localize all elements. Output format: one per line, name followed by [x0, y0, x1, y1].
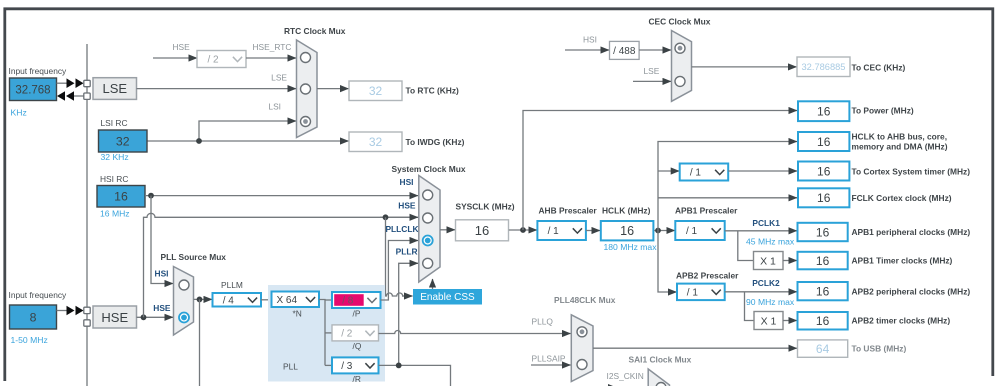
radio PLLQ selected — [577, 327, 587, 337]
multiplexer CEC Clock Mux — [672, 31, 692, 102]
multiplier APB1 X1 — [754, 252, 784, 270]
svg-text:HCLK (MHz): HCLK (MHz) — [602, 205, 651, 215]
value box APB1 timer 16 — [798, 252, 848, 269]
wire PLLR riser — [399, 263, 418, 365]
wire HSE to PLL mux — [137, 316, 174, 318]
junction PLL source branch — [197, 297, 203, 303]
svg-text:64: 64 — [816, 342, 830, 356]
svg-text:PLLSAIP: PLLSAIP — [532, 354, 566, 364]
svg-text:32: 32 — [369, 135, 383, 149]
wire APB1 to timer mult — [738, 231, 753, 261]
wire mux to SYSCLK — [440, 229, 455, 231]
divider HSI /488 — [610, 41, 640, 59]
region PLL background — [268, 285, 385, 382]
svg-text:/ 1: / 1 — [690, 168, 702, 179]
svg-text:16: 16 — [816, 225, 830, 239]
svg-text:PCLK2: PCLK2 — [752, 278, 780, 288]
divider /Q 2 disabled — [332, 325, 379, 341]
pin RCC_OSC32_OUT — [84, 93, 90, 99]
value box To USB 64 — [798, 340, 848, 357]
radio sys HSI unselected — [423, 190, 433, 200]
multiplexer System Clock Mux — [419, 176, 440, 283]
svg-text:HSE: HSE — [101, 310, 128, 325]
radio LSI selected — [301, 117, 311, 127]
multiplexer PLL Source Mux — [174, 267, 194, 336]
wire HSI to system mux — [145, 195, 418, 197]
divider Cortex timer /1 — [680, 164, 729, 181]
svg-text:FCLK Cortex clock (MHz): FCLK Cortex clock (MHz) — [852, 193, 952, 203]
svg-text:/P: /P — [353, 309, 361, 319]
wire SYSCLK to AHB — [509, 229, 537, 231]
multiplexer PLL48CLK Mux — [571, 315, 593, 382]
wire HCLK down to APB2 — [658, 231, 677, 293]
wire CSS arrow — [402, 295, 413, 297]
pin RCC_OSC_IN — [84, 307, 90, 313]
divider HSE_RTC /2 — [197, 51, 246, 68]
svg-text:X 64: X 64 — [276, 295, 297, 306]
svg-text:HSE_RTC: HSE_RTC — [253, 42, 292, 52]
wire HCLK to APB1 — [654, 230, 675, 232]
wire PCLK2 — [725, 291, 797, 293]
svg-text:APB1 Timer clocks (MHz): APB1 Timer clocks (MHz) — [852, 256, 953, 266]
radio sys PLLCLK selected — [423, 236, 433, 246]
wire LSI to IWDG — [147, 140, 349, 142]
wire HCLK riser — [658, 142, 797, 231]
multiplexer SAI1 Clock Mux partial — [648, 369, 669, 386]
oscillator HSE — [93, 306, 137, 328]
value box To Power 16 — [798, 101, 849, 121]
svg-text:/ 488: / 488 — [613, 46, 636, 57]
radio CEC LSE unselected — [675, 76, 685, 86]
button Enable CSS — [413, 289, 482, 305]
svg-text:16: 16 — [817, 135, 831, 149]
svg-text:16: 16 — [816, 314, 830, 328]
wire HSE to CSS — [386, 217, 405, 296]
svg-text:APB2 timer clocks (MHz): APB2 timer clocks (MHz) — [852, 316, 951, 326]
svg-text:PLL Source Mux: PLL Source Mux — [161, 252, 227, 262]
wire APB2 to timer mult — [745, 292, 754, 321]
value box APB2 peripheral 16 — [798, 282, 848, 300]
wire HSE osc-in double arrow — [57, 306, 84, 316]
multiplier APB2 X1 — [754, 312, 783, 330]
wire FCLK — [658, 197, 797, 199]
value box FCLK 16 — [798, 188, 849, 207]
svg-text:/ 2: / 2 — [341, 329, 353, 340]
svg-text:180 MHz max: 180 MHz max — [604, 242, 658, 252]
wire HSE to RTC divider — [153, 57, 197, 59]
svg-text:16: 16 — [114, 190, 128, 204]
junction LSI branch — [196, 138, 202, 144]
junction HSE css branch — [383, 214, 389, 220]
svg-text:/Q: /Q — [353, 341, 362, 351]
svg-text:APB1 peripheral clocks (MHz): APB1 peripheral clocks (MHz) — [852, 227, 971, 237]
svg-text:HSE: HSE — [153, 303, 171, 313]
svg-text:HSE: HSE — [173, 42, 191, 52]
value box APB1 peripheral 16 — [798, 223, 848, 241]
svg-text:/ 3: / 3 — [341, 361, 353, 372]
svg-text:32: 32 — [369, 84, 383, 98]
radio PLL HSE selected — [179, 313, 189, 323]
block HSE input frequency 8 — [10, 305, 57, 329]
value box Cortex timer 16 — [798, 162, 849, 181]
svg-text:SYSCLK (MHz): SYSCLK (MHz) — [456, 202, 515, 212]
wire LSE to CEC mux — [633, 80, 671, 82]
svg-text:90 MHz max: 90 MHz max — [746, 297, 795, 307]
svg-text:PLLCLK: PLLCLK — [385, 224, 418, 234]
svg-text:LSE: LSE — [271, 73, 287, 83]
wire LSE osc-out double arrow — [57, 91, 84, 101]
svg-text:*N: *N — [293, 309, 302, 319]
svg-text:SAI1 Clock Mux: SAI1 Clock Mux — [629, 355, 692, 365]
wire HSE into system mux — [380, 216, 418, 218]
wire cortex timer out — [728, 170, 797, 172]
block LSI RC 32 — [99, 130, 148, 152]
radio PLL HSI unselected — [179, 280, 189, 290]
svg-text:To USB (MHz): To USB (MHz) — [852, 344, 907, 354]
junction SYSCLK branch — [520, 227, 526, 233]
svg-text:To IWDG (KHz): To IWDG (KHz) — [406, 137, 465, 147]
multiplexer RTC Clock Mux — [297, 40, 318, 138]
svg-text:32.768: 32.768 — [15, 84, 50, 96]
wire SYSCLK to power riser — [523, 111, 797, 231]
svg-text:PLL: PLL — [283, 362, 298, 372]
svg-text:16: 16 — [817, 164, 831, 178]
value box To IWDG 32 — [349, 132, 402, 152]
svg-text:HSI RC: HSI RC — [100, 174, 128, 184]
pin RCC_OSC32_IN — [84, 80, 90, 86]
wire APB2 timer out — [783, 320, 797, 322]
svg-text:1-50 MHz: 1-50 MHz — [11, 335, 48, 345]
divider /R 3 — [332, 357, 379, 373]
svg-text:8: 8 — [30, 310, 37, 324]
svg-text:/ 1: / 1 — [686, 226, 698, 237]
wire HCLK to cortex timer — [658, 170, 679, 172]
svg-text:To Power (MHz): To Power (MHz) — [852, 106, 914, 116]
svg-text:PCLK1: PCLK1 — [752, 218, 780, 228]
wire into /Q — [325, 332, 332, 334]
radio CEC HSI selected — [675, 43, 685, 53]
wire HSI riser to PLL mux — [151, 196, 173, 284]
wire into /R — [325, 364, 332, 366]
divider APB1 /1 — [675, 221, 724, 240]
svg-text:Input frequency: Input frequency — [9, 290, 68, 300]
radio sys HSE unselected — [423, 213, 433, 223]
svg-text:System Clock Mux: System Clock Mux — [392, 164, 466, 174]
radio PLLSAIP unselected — [577, 360, 587, 370]
wire PLLCLK riser — [381, 241, 419, 301]
svg-text:/R: /R — [353, 374, 361, 384]
svg-text:AHB Prescaler: AHB Prescaler — [539, 205, 598, 215]
svg-text:/ 1: / 1 — [548, 226, 560, 237]
wire CEC mux output — [692, 66, 797, 68]
svg-text:PLLR: PLLR — [396, 246, 418, 256]
svg-text:Enable CSS: Enable CSS — [420, 292, 475, 303]
svg-text:16: 16 — [620, 224, 634, 238]
svg-text:PLLM: PLLM — [221, 280, 243, 290]
svg-text:RTC Clock Mux: RTC Clock Mux — [284, 26, 346, 36]
svg-text:X 1: X 1 — [761, 315, 777, 327]
svg-text:LSI: LSI — [268, 102, 281, 112]
svg-text:16: 16 — [475, 223, 489, 238]
wire PLL source down — [199, 299, 201, 386]
block HSI RC 16 — [97, 186, 145, 208]
svg-text:16: 16 — [817, 191, 831, 205]
svg-text:KHz: KHz — [11, 108, 27, 118]
svg-text:HCLK to AHB bus, core,: HCLK to AHB bus, core, — [852, 131, 948, 141]
svg-text:PLLQ: PLLQ — [532, 316, 554, 326]
svg-text:APB2 Prescaler: APB2 Prescaler — [676, 270, 739, 280]
svg-text:HSE: HSE — [398, 201, 416, 211]
svg-text:32 KHz: 32 KHz — [101, 152, 129, 162]
junction HSE branch — [141, 314, 147, 320]
svg-text:HSI: HSI — [155, 269, 169, 279]
svg-text:LSE: LSE — [103, 81, 128, 96]
wire HSE_RTC to mux — [246, 57, 296, 59]
wire AHB to HCLK — [586, 230, 600, 232]
wire PLL48 output to USB — [593, 347, 797, 349]
value box APB2 timer 16 — [798, 312, 848, 330]
svg-text:/ 2: / 2 — [207, 55, 219, 66]
svg-text:/ 1: / 1 — [687, 287, 699, 298]
wire /488 to CEC mux — [639, 49, 671, 51]
svg-text:PLL48CLK Mux: PLL48CLK Mux — [554, 295, 616, 305]
junction R branch — [396, 363, 402, 369]
svg-text:Input frequency: Input frequency — [9, 66, 68, 76]
svg-text:/ 8: / 8 — [342, 296, 354, 307]
wire HSE riser — [144, 213, 411, 317]
wire PLLM to N — [261, 299, 272, 301]
wire PLL mux output — [194, 298, 213, 300]
wire PLLSAIP — [531, 364, 571, 366]
wire APB1 timer out — [783, 260, 797, 262]
svg-text:X 1: X 1 — [760, 255, 776, 267]
wire PLLQ — [379, 331, 571, 334]
wire LSE to mux — [137, 88, 297, 90]
wire CSS up arrow — [432, 279, 434, 289]
multiplier *N X64 — [272, 292, 320, 308]
svg-text:APB2 peripheral clocks (MHz): APB2 peripheral clocks (MHz) — [852, 286, 971, 296]
divider APB2 /1 — [677, 284, 725, 301]
wire into /P — [325, 299, 332, 301]
wire N to dividers — [319, 300, 325, 366]
svg-text:To CEC (KHz): To CEC (KHz) — [852, 63, 906, 73]
wire LSE osc-in double arrow — [57, 78, 84, 88]
radio LSE unselected — [301, 84, 311, 94]
wire HSI to /488 — [565, 49, 609, 51]
svg-text:LSE: LSE — [644, 66, 660, 76]
value box To RTC 32 — [349, 81, 402, 101]
svg-text:memory and DMA (MHz): memory and DMA (MHz) — [852, 141, 948, 151]
pin RCC_OSC_OUT — [84, 320, 90, 326]
svg-text:45 MHz max: 45 MHz max — [746, 237, 795, 247]
radio SAI1 input partial — [656, 383, 666, 386]
radio sys PLLR unselected — [423, 258, 433, 268]
svg-text:APB1 Prescaler: APB1 Prescaler — [675, 205, 738, 215]
svg-text:CEC Clock Mux: CEC Clock Mux — [649, 17, 711, 27]
divider PLLM /4 — [213, 293, 262, 307]
svg-text:LSI RC: LSI RC — [101, 118, 128, 128]
svg-text:16: 16 — [816, 254, 830, 268]
value box To CEC 32.786885 — [797, 57, 850, 77]
svg-text:16: 16 — [817, 105, 831, 119]
divider /P 8 highlighted — [332, 292, 381, 308]
svg-text:HSI: HSI — [400, 177, 414, 187]
svg-text:To RTC (KHz): To RTC (KHz) — [406, 86, 460, 96]
svg-text:To Cortex System timer (MHz): To Cortex System timer (MHz) — [852, 166, 971, 176]
svg-text:16: 16 — [816, 284, 830, 298]
wire PCLK1 — [725, 230, 797, 232]
value box HCLK 16 — [601, 221, 654, 240]
wire vertical pin bus — [86, 44, 88, 386]
svg-text:HSI: HSI — [583, 35, 597, 45]
svg-text:I2S_CKIN: I2S_CKIN — [607, 371, 644, 381]
wire LSI riser to mux — [199, 121, 296, 141]
wire RTC mux output — [317, 88, 349, 90]
svg-text:32.786885: 32.786885 — [802, 62, 846, 72]
svg-text:16 MHz: 16 MHz — [100, 209, 130, 219]
junction HSI branch — [148, 193, 154, 199]
radio HSE_RTC unselected — [301, 53, 311, 63]
block LSE input frequency 32.768 — [10, 78, 57, 101]
value box HCLK AHB 16 — [798, 132, 849, 151]
svg-text:32: 32 — [116, 134, 130, 148]
junction HCLK branch — [655, 228, 661, 234]
svg-text:/ 4: / 4 — [223, 295, 235, 306]
divider AHB /1 — [537, 221, 586, 240]
wire R out — [379, 365, 451, 386]
value box SYSCLK 16 — [456, 220, 509, 241]
oscillator LSE — [93, 78, 137, 100]
